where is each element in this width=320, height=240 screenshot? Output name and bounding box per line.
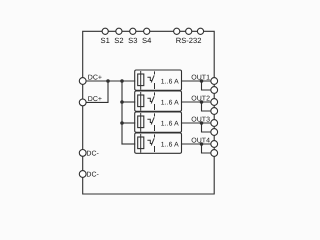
- svg-text:S4: S4: [142, 36, 151, 45]
- svg-text:1..6 A: 1..6 A: [161, 79, 179, 86]
- junction dot bus row1: [120, 79, 124, 83]
- breaker module channel 3: [135, 112, 182, 132]
- terminal S2: [116, 28, 122, 34]
- svg-text:S3: S3: [128, 36, 137, 45]
- wire OUT1: [182, 80, 215, 82]
- terminal RS-232 b: [186, 28, 192, 34]
- terminal OUT4 b: [211, 150, 218, 157]
- wire bus stub row3: [122, 122, 135, 124]
- terminal S1: [102, 28, 108, 34]
- wire OUT2 branch: [202, 102, 215, 111]
- wire OUT3 branch: [202, 123, 215, 132]
- breaker module channel 4: [135, 133, 182, 153]
- terminal S4: [144, 28, 150, 34]
- junction dot OUT2: [200, 100, 204, 104]
- junction dot OUT4: [200, 142, 204, 146]
- terminal OUT1 a: [211, 78, 218, 85]
- svg-text:RS-232: RS-232: [176, 36, 202, 45]
- wire DC+2 riser: [83, 81, 108, 102]
- svg-text:OUT4: OUT4: [191, 138, 210, 145]
- svg-text:DC-: DC-: [86, 150, 99, 157]
- wire frame outline: [83, 31, 215, 194]
- terminal RS-232 a: [174, 28, 180, 34]
- wire OUT2: [182, 101, 215, 103]
- terminal DC- 1: [79, 150, 86, 157]
- terminal RS-232 c: [197, 28, 203, 34]
- wire bus stub row4: [122, 143, 135, 145]
- terminal OUT1 b: [211, 87, 218, 94]
- terminal S3: [130, 28, 136, 34]
- svg-text:DC+: DC+: [88, 74, 102, 81]
- junction dot OUT1: [200, 79, 204, 83]
- wire OUT4: [182, 143, 215, 145]
- breaker module channel 1: [135, 70, 182, 90]
- wire OUT3: [182, 122, 215, 124]
- svg-text:S2: S2: [114, 36, 123, 45]
- svg-text:S1: S1: [101, 36, 110, 45]
- wire OUT1 branch: [202, 81, 215, 90]
- junction dot bus row3: [120, 121, 124, 125]
- terminal OUT3 b: [211, 129, 218, 136]
- junction dot bus row2: [120, 100, 124, 104]
- svg-text:DC+: DC+: [88, 96, 102, 103]
- terminal DC+ 2: [79, 99, 86, 106]
- wire supply bus: [121, 81, 123, 144]
- terminal OUT3 a: [211, 120, 218, 127]
- wire OUT4 branch: [202, 144, 215, 153]
- terminal OUT4 a: [211, 141, 218, 148]
- terminal DC+ 1: [79, 78, 86, 85]
- svg-text:1..6 A: 1..6 A: [161, 100, 179, 107]
- breaker module channel 2: [135, 91, 182, 111]
- svg-text:1..6 A: 1..6 A: [161, 121, 179, 128]
- svg-text:OUT1: OUT1: [191, 75, 210, 82]
- svg-text:OUT2: OUT2: [191, 96, 210, 103]
- junction dot DC+2/row1: [106, 79, 110, 83]
- svg-text:OUT3: OUT3: [191, 117, 210, 124]
- terminal OUT2 a: [211, 99, 218, 106]
- terminal DC- 2: [79, 171, 86, 178]
- svg-text:1..6 A: 1..6 A: [161, 142, 179, 149]
- junction dot OUT3: [200, 121, 204, 125]
- svg-text:DC-: DC-: [86, 171, 99, 178]
- terminal OUT2 b: [211, 108, 218, 115]
- wire DC+ feed row1: [83, 80, 135, 82]
- wire bus stub row2: [122, 101, 135, 103]
